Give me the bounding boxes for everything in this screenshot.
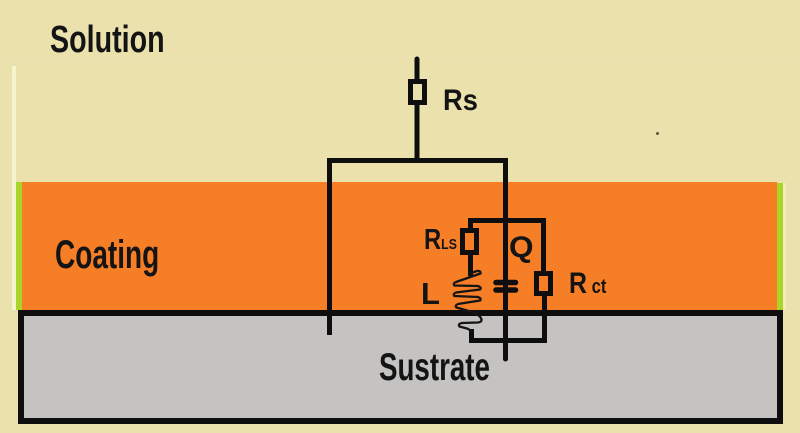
substrate layer (gray box with black border) [18, 310, 783, 424]
label Rs [443, 84, 478, 118]
faint vertical line at left edge [12, 66, 16, 310]
wire: bottom-left corner stub [469, 329, 474, 343]
label Q [509, 231, 534, 265]
resistor RLS [463, 231, 477, 253]
wire: main vertical (right branch) down to capacitor [503, 158, 508, 285]
wire: stub to RLS [468, 218, 473, 231]
label Coating [55, 233, 159, 278]
inductor L (hand-drawn coil) [454, 271, 482, 332]
wire: stub to Rct [541, 218, 546, 274]
coating layer green strip right [777, 183, 783, 310]
resistor Rs [411, 82, 425, 103]
label Sustrate [379, 346, 490, 390]
resistor Rct [537, 274, 551, 294]
wire: bottom-right riser to Rct [542, 294, 547, 343]
wire: Rs down to top node [415, 102, 420, 163]
wire: main vertical below capacitor [503, 284, 508, 359]
coating layer green strip left [16, 182, 22, 310]
faint horizontal line under Solution label [0, 57, 800, 59]
label Rct [569, 267, 606, 301]
wire: inner top horizontal bus [468, 218, 546, 223]
pale fade right of green strip [783, 183, 786, 310]
label L [421, 276, 440, 312]
wire: bottom horizontal bus [469, 338, 547, 343]
label RLS [424, 224, 457, 257]
label Solution [50, 19, 165, 62]
capacitor Q top plate [496, 280, 516, 286]
wire: top horizontal bus [327, 158, 508, 163]
wire: left branch drop [327, 158, 332, 335]
stray dark dot [656, 132, 659, 135]
wire: RLS down to inductor [468, 252, 473, 276]
capacitor Q bottom plate [496, 287, 516, 293]
wire: top stub above Rs [415, 59, 420, 81]
coating layer (orange) [22, 182, 777, 310]
